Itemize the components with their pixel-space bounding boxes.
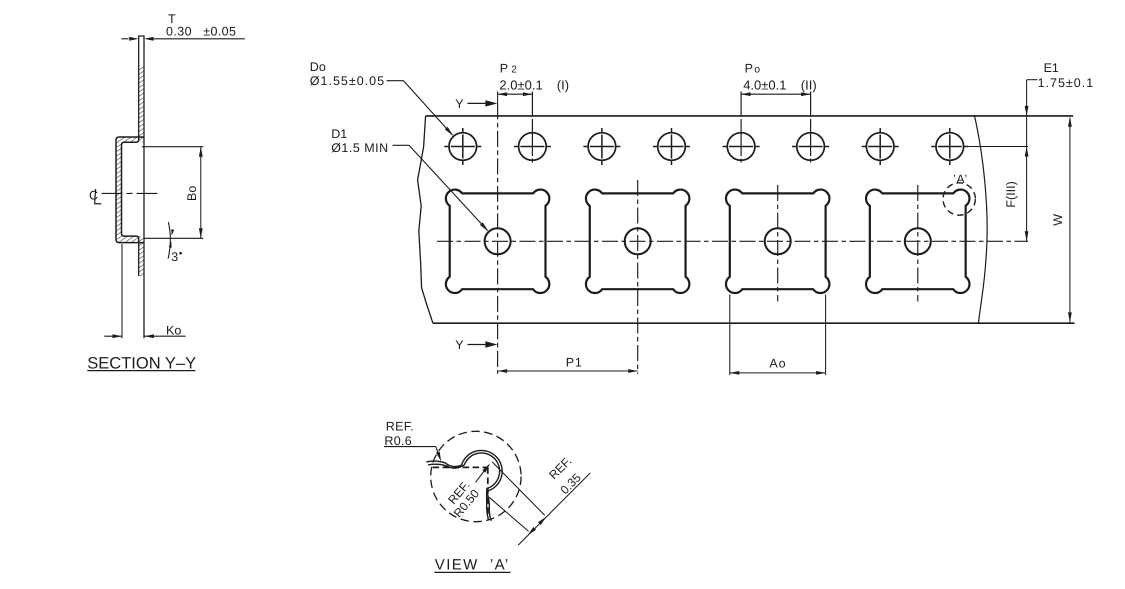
svg-text:Do: Do xyxy=(310,60,326,74)
section tape plane (right face) line xyxy=(143,36,145,338)
section pocket inner contour xyxy=(122,138,139,242)
sprocket hole 3 horizontal crosshair xyxy=(583,146,620,148)
sprocket hole 4 horizontal crosshair xyxy=(653,146,690,148)
sprocket hole 5 vertical crosshair xyxy=(740,92,742,166)
svg-text:F(III): F(III) xyxy=(1004,181,1018,207)
svg-text:VIEW ’A’: VIEW ’A’ xyxy=(435,557,510,574)
dimension E1 leader and vertical line xyxy=(1027,79,1038,81)
pocket 1 center hole D1 xyxy=(485,228,511,254)
dimension T lines and arrows xyxy=(121,38,128,40)
svg-text:C: C xyxy=(89,189,98,203)
dimension E1 arrows (tape edge / hole centerline) xyxy=(1025,106,1029,116)
leader D1 to pocket 1 hole xyxy=(393,144,410,146)
section strip left face upper xyxy=(138,36,140,138)
svg-text:’A’: ’A’ xyxy=(953,172,968,186)
dimension Ko line with outside arrows xyxy=(104,335,122,337)
dimension Bo line with arrows xyxy=(200,147,202,239)
sprocket hole 5 xyxy=(727,133,755,161)
tape right break edge xyxy=(975,116,988,323)
sprocket hole 7 vertical crosshair xyxy=(879,128,881,165)
svg-text:P: P xyxy=(500,61,508,75)
svg-text:Y: Y xyxy=(455,338,464,352)
pocket 2 outline xyxy=(586,190,689,293)
svg-text:o: o xyxy=(754,63,760,75)
svg-text:W: W xyxy=(1051,214,1065,226)
tape left break edge xyxy=(418,116,433,323)
sprocket hole 4 xyxy=(658,133,686,161)
sprocket hole 2 vertical crosshair xyxy=(531,92,533,166)
svg-text:Ø1.5 MIN: Ø1.5 MIN xyxy=(331,141,389,155)
dimension REF. 0.35 extension lines at 45 deg xyxy=(492,462,545,516)
svg-text:(II): (II) xyxy=(801,77,817,92)
tape top edge xyxy=(426,115,1074,117)
pocket 4 vertical centerline xyxy=(917,185,919,302)
sprocket hole 1 horizontal crosshair xyxy=(444,146,481,148)
sprocket hole 3 xyxy=(588,133,616,161)
sprocket hole 1 vertical crosshair xyxy=(462,128,464,165)
sprocket hole 8 xyxy=(936,133,964,161)
pocket 2 center hole D1 xyxy=(625,228,651,254)
sprocket hole 8 centerline extension to F dimension xyxy=(966,146,1028,148)
sprocket hole 7 xyxy=(866,133,894,161)
leader Do to sprocket hole 1 xyxy=(387,80,404,82)
dimension Ao line with arrows xyxy=(730,372,826,374)
section horizontal centerline xyxy=(102,192,162,194)
sprocket hole 6 vertical crosshair xyxy=(810,92,812,166)
sprocket hole 2 horizontal crosshair xyxy=(514,146,551,148)
dimension Bo extension lines xyxy=(142,146,203,148)
pocket 3 center hole D1 xyxy=(765,228,791,254)
svg-text:Bo: Bo xyxy=(185,186,199,201)
sprocket hole 4 vertical crosshair xyxy=(671,128,673,165)
dimension W line with arrows xyxy=(1069,118,1071,323)
sprocket hole 6 xyxy=(797,133,825,161)
dimension F(III) bottom arrow xyxy=(1025,231,1029,241)
sprocket hole 5 horizontal crosshair xyxy=(723,146,760,148)
sprocket hole 3 vertical crosshair xyxy=(601,128,603,165)
svg-text:E1: E1 xyxy=(1044,61,1059,75)
view A detail boundary dashed circle xyxy=(431,431,521,521)
svg-text:Ø1.55±0.05: Ø1.55±0.05 xyxy=(310,74,385,88)
svg-text:Ko: Ko xyxy=(166,323,181,337)
dimension P2 line with arrows xyxy=(498,93,533,95)
sprocket hole 1 xyxy=(449,133,477,161)
pocket 4 outline xyxy=(866,190,969,293)
dimension Ao extension lines xyxy=(729,295,731,376)
svg-text:P1: P1 xyxy=(566,355,583,369)
svg-text:Y: Y xyxy=(455,97,464,111)
svg-text:SECTION Y–Y: SECTION Y–Y xyxy=(87,355,196,373)
svg-text:D1: D1 xyxy=(331,127,347,141)
view A nominal corner dashed lines xyxy=(433,466,488,468)
svg-text:3: 3 xyxy=(171,250,178,264)
svg-text:±0.05: ±0.05 xyxy=(203,24,236,38)
dimension REF. 0.35 line with arrows xyxy=(518,473,590,545)
section strip top cap xyxy=(138,35,145,37)
svg-text:2.0±0.1: 2.0±0.1 xyxy=(499,77,542,92)
svg-text:2: 2 xyxy=(511,64,517,75)
dimension P1 line with arrows xyxy=(498,370,638,372)
section pocket outer contour xyxy=(116,137,144,243)
3 degree draft angle arc and arrows xyxy=(168,222,170,259)
svg-text:Ao: Ao xyxy=(769,357,786,371)
view A corner inner contour xyxy=(428,453,500,520)
dimension Po line with arrows xyxy=(741,93,811,95)
section hatch fill (tape material cross-section) xyxy=(139,67,144,137)
pocket 1 vertical centerline (section line Y-Y) xyxy=(497,103,499,373)
svg-text:0.30: 0.30 xyxy=(166,24,192,38)
pocket 1 outline xyxy=(446,190,549,293)
svg-text:(I): (I) xyxy=(557,77,569,92)
svg-text:REF.: REF. xyxy=(386,420,414,434)
pocket 4 center hole D1 xyxy=(905,228,931,254)
detail A dashed circle on pocket 4 corner xyxy=(943,183,975,215)
dimension Ko extension line (pocket bottom) xyxy=(121,244,123,338)
svg-text:P: P xyxy=(745,61,753,75)
pocket 3 vertical centerline xyxy=(777,185,779,302)
pocket row horizontal centerline xyxy=(437,240,1028,242)
sprocket hole 8 vertical crosshair xyxy=(949,128,951,165)
section strip left face lower xyxy=(138,242,140,276)
pocket 2 vertical centerline xyxy=(637,180,639,374)
svg-text:1.75±0.1: 1.75±0.1 xyxy=(1038,76,1095,90)
sprocket hole 6 horizontal crosshair xyxy=(792,146,829,148)
view A corner outer contour xyxy=(426,450,502,520)
sprocket hole 8 horizontal crosshair xyxy=(931,146,968,148)
sprocket hole 2 xyxy=(519,133,547,161)
pocket 3 outline xyxy=(726,190,829,293)
svg-text:4.0±0.1: 4.0±0.1 xyxy=(743,77,786,92)
svg-text:R0.6: R0.6 xyxy=(384,434,412,448)
tape bottom edge xyxy=(433,322,1075,324)
sprocket hole 7 horizontal crosshair xyxy=(862,146,899,148)
dimension P2 left extension (Y line top) xyxy=(497,92,499,104)
